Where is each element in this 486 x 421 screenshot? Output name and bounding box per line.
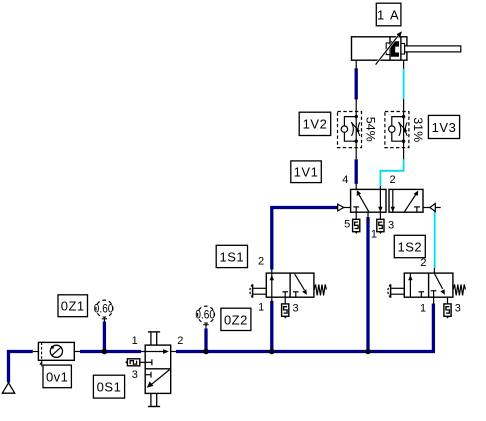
flow control valve 1V2 (one-way, 54%) [338,99,362,159]
svg-text:0.60: 0.60 [94,301,114,315]
svg-text:5: 5 [344,219,350,231]
svg-text:1: 1 [132,335,138,347]
svg-text:1: 1 [371,228,377,240]
label 0Z1 [58,295,88,317]
pin label 3 (1S2) [455,302,461,314]
silencer at 1S2 port 3 [444,304,451,319]
node: junction at 0Z2 [203,349,209,355]
label 1V1 [291,161,322,183]
node: junction 1S1 supply [269,349,275,355]
gauge 0Z2 (pressure display 0.60) [195,306,215,329]
label 0v1 [43,365,71,388]
wire: gauge 0Z2 riser [204,329,207,352]
silencer at 0S1 port 3 (horizontal) [125,359,145,366]
value label 31% (1V3) [411,117,423,142]
label 1V2 [299,112,331,135]
svg-text:1V1: 1V1 [294,165,319,180]
pin label 1 (1S2) [420,302,426,314]
silencer at 1S1 port 3 [282,304,289,319]
svg-text:1V2: 1V2 [303,117,328,132]
svg-text:1 A: 1 A [377,8,400,23]
pin label 5 (1V1) [344,219,350,231]
silencer at 1V1 port 5 [353,219,360,234]
svg-text:2: 2 [177,335,183,347]
wire: 1V2 to 1V1 port 4 [355,159,358,184]
svg-text:0Z1: 0Z1 [61,299,85,314]
svg-text:2: 2 [420,257,426,269]
wire: 1S1 port 2 to 1V1 left pilot 14 [272,208,338,270]
label 1S1 [216,245,247,267]
wire: gauge 0Z1 riser [103,322,106,352]
pin label 3 (1S1) [293,302,299,314]
svg-text:0v1: 0v1 [46,369,68,384]
pin label 1 (1V1) [371,228,377,240]
svg-text:1: 1 [420,302,426,314]
pin label 4 (1V1) [342,174,348,186]
node: junction at 0Z1 [102,349,108,355]
compressed air source [2,383,14,393]
svg-text:4: 4 [342,174,348,186]
wire: supply to 0v1 [9,352,33,383]
pin label 3 (1V1) [388,219,394,231]
gauge 0Z1 (pressure display 0.60) [94,300,114,322]
svg-text:1S1: 1S1 [219,249,244,264]
pin label 2 (1V1) [390,174,396,186]
pin label 1 (0S1) [132,335,138,347]
svg-text:0S1: 0S1 [97,380,122,395]
label 1V3 [428,115,459,138]
wire: cylinder 1A right port to 1V3 (exhausted, cyan) [403,68,405,99]
wire: manifold 0S1 port 2 to 1S2 port 1 (through nodes 0Z2, 1S1, 1V1) [176,304,433,352]
wire: 1V3 to 1V1 port 2 (cyan) [380,159,403,186]
label 0S1 [93,375,124,398]
pin label 2 (1S2) [420,257,426,269]
svg-text:3: 3 [132,369,138,381]
valve 0S1 (3/2 hand slide, rotated) [141,332,177,407]
silencer at 1V1 port 3 [377,219,384,234]
svg-text:3: 3 [293,302,299,314]
svg-text:1: 1 [258,301,264,313]
pin label 3 (0S1) [132,369,138,381]
svg-text:2: 2 [390,174,396,186]
valve 1V1 (5/2 double pilot impulse valve) [338,184,441,220]
svg-text:2: 2 [258,255,264,267]
wire: 0v1 to 0S1 port 1 (through node 0Z1) [80,350,141,353]
pin label 2 (1S1) [258,255,264,267]
service unit 0v1 [33,342,80,366]
svg-text:54%: 54% [364,117,376,142]
valve 1S1 (3/2 pushbutton, actuated) [250,269,327,304]
wire: cylinder 1A left port to 1V2 [355,68,358,99]
wire: 1V1 port 1 drop to manifold [366,217,369,352]
svg-text:1V3: 1V3 [432,120,457,135]
node: junction 1V1 supply [365,349,371,355]
svg-text:0.60: 0.60 [195,307,215,321]
svg-text:3: 3 [455,302,461,314]
value label 54% (1V2) [364,117,376,142]
svg-text:31%: 31% [411,117,423,142]
svg-text:1S2: 1S2 [397,240,422,255]
flow control valve 1V3 (one-way, 31%) [385,99,409,159]
valve 1S2 (3/2 pushbutton, rest position) [388,268,466,304]
label 1S2 [394,235,425,257]
svg-text:0Z2: 0Z2 [224,312,248,327]
label 0Z2 [221,308,251,330]
pin label 1 (1S1) [258,301,264,313]
cylinder 1A (double acting with adjustable cushioning) [352,31,461,68]
label 1A [376,3,401,26]
svg-text:3: 3 [388,219,394,231]
pin label 2 (0S1) [177,335,183,347]
wire: 1S1 port 1 drop to manifold [270,301,273,352]
wire: 1V1 right pilot 12 to 1S2 port 2 (cyan) [434,211,436,269]
